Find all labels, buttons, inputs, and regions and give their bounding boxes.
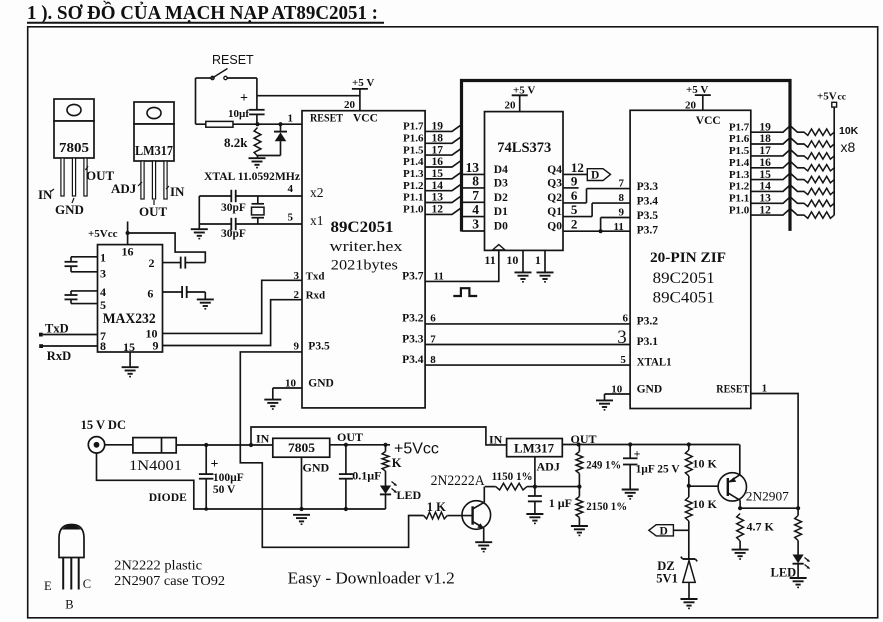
svg-text:74LS373: 74LS373 [497, 140, 551, 156]
chip MAX232 box [98, 245, 163, 352]
capacitor MAX232 C2 [65, 295, 78, 299]
svg-text:5: 5 [571, 202, 578, 217]
svg-text:P1.2: P1.2 [729, 181, 750, 193]
MAX232 pin labels [100, 245, 159, 355]
svg-text:Q3: Q3 [547, 177, 562, 189]
resistor network 10K x8 [804, 129, 834, 218]
terminal RxD [39, 344, 71, 363]
wire master P3.3 to ZIF [425, 344, 630, 346]
terminal TxD [39, 321, 69, 336]
74LS373 D input wires [462, 160, 509, 233]
wire 2N2222A collector [483, 487, 485, 503]
svg-text:16: 16 [122, 245, 134, 259]
svg-text:1: 1 [288, 113, 294, 125]
wire 373 pin10 gnd [522, 250, 524, 272]
wire Q1 to ZIF P3.4 [563, 203, 630, 217]
svg-text:6: 6 [571, 188, 578, 203]
svg-text:2: 2 [571, 217, 578, 232]
regulator 7805 box [256, 432, 330, 457]
regulator LM317 box [489, 432, 562, 456]
svg-text:x2: x2 [310, 185, 324, 200]
wire 2N2907 base [689, 485, 728, 487]
svg-text:LM317: LM317 [135, 143, 173, 158]
svg-text:15 V DC: 15 V DC [81, 418, 126, 432]
svg-text:TxD: TxD [45, 321, 69, 335]
svg-text:7: 7 [472, 188, 479, 203]
wire ZIF GND [605, 394, 631, 400]
label 2N2222A [431, 473, 485, 489]
wire raw supply rail [251, 427, 507, 445]
power +5V 373 [505, 84, 536, 111]
svg-text:30pF: 30pF [221, 228, 246, 240]
svg-text:D4: D4 [494, 164, 508, 176]
signal pointer D (program) [649, 525, 689, 538]
transistor 2N2222A [447, 501, 490, 542]
resistor 8.2k [224, 128, 261, 157]
svg-text:P3.4: P3.4 [637, 196, 659, 208]
ground 373 pin1 [537, 272, 554, 281]
chip 74LS373 box [485, 112, 564, 251]
svg-text:+5V: +5V [817, 91, 837, 103]
wire master P3.7 to 373 LE [425, 251, 499, 282]
svg-text:writer.hex: writer.hex [330, 239, 404, 255]
svg-text:IN: IN [256, 432, 270, 446]
89C2051 P1 bus wires with pin numbers [403, 121, 462, 216]
svg-text:89C2051: 89C2051 [331, 219, 394, 236]
svg-text:cc: cc [838, 93, 846, 103]
svg-text:D2: D2 [494, 192, 508, 204]
svg-text:P3.3: P3.3 [637, 181, 659, 193]
svg-text:1150 1%: 1150 1% [492, 469, 533, 483]
svg-text:P3.5: P3.5 [637, 210, 659, 222]
svg-text:ADJ: ADJ [537, 459, 560, 473]
LED indicator right [771, 555, 810, 580]
svg-text:IN: IN [489, 432, 503, 446]
wire x2 line [199, 195, 302, 197]
capacitor 1uF 25V [623, 445, 680, 490]
svg-text:2N2222A: 2N2222A [431, 473, 485, 489]
latch enable caret 373 [493, 245, 506, 250]
note Easy-Downloader [288, 569, 455, 588]
resistor K [382, 445, 402, 471]
svg-text:1: 1 [100, 251, 106, 265]
wire MAX232 pin9 to Rxd [163, 300, 303, 346]
svg-text:8: 8 [472, 173, 479, 188]
svg-text:D3: D3 [494, 177, 508, 189]
svg-text:+5Vcc: +5Vcc [394, 441, 439, 458]
ground xtal [191, 229, 208, 238]
signal pointer D (373) [587, 169, 610, 182]
wire diode to ground [258, 156, 281, 158]
wire connector return [97, 453, 386, 511]
svg-text:Q1: Q1 [547, 206, 562, 218]
LED indicator left [380, 471, 422, 509]
resistor reset series (box) [206, 121, 233, 127]
ground ZIF GND [596, 400, 613, 409]
capacitor 30pF lower [221, 218, 246, 240]
DC input connector [88, 437, 104, 453]
svg-text:6: 6 [623, 313, 629, 325]
svg-text:5V1: 5V1 [656, 571, 678, 585]
svg-text:P3.5: P3.5 [308, 341, 330, 353]
svg-text:VCC: VCC [696, 115, 721, 127]
svg-text:P1.1: P1.1 [403, 192, 423, 204]
resistor 2150 1% [576, 487, 627, 526]
74LS373 bottom pin numbers [484, 253, 541, 267]
svg-text:MAX232: MAX232 [103, 311, 156, 327]
svg-text:Easy - Downloader v1.2: Easy - Downloader v1.2 [288, 569, 455, 588]
svg-text:P1.3: P1.3 [729, 169, 750, 181]
svg-text:GND: GND [637, 383, 663, 395]
label RESET [212, 53, 254, 67]
svg-text:K: K [392, 456, 402, 470]
svg-text:P1.4: P1.4 [403, 156, 424, 168]
svg-text:10 K: 10 K [693, 457, 718, 471]
svg-text:11: 11 [614, 221, 624, 233]
crystal 11.0592MHz symbol [252, 196, 265, 224]
wire Q3 stub [563, 187, 579, 189]
wire +5V feed to reset circuit [257, 95, 360, 97]
resistor LED series [795, 508, 802, 554]
svg-text:6: 6 [430, 313, 436, 325]
ZIF P1 wires with pin numbers [729, 121, 805, 216]
svg-text:P3.3: P3.3 [402, 333, 424, 345]
wire ZIF RESET to transistor [751, 394, 798, 509]
svg-text:3: 3 [472, 217, 479, 232]
wire reset cap to pin1 line [256, 114, 258, 124]
svg-text:P1.7: P1.7 [729, 121, 750, 133]
wire Q0 to ZIF P3.7 and P3.5 [563, 218, 630, 234]
svg-text:5: 5 [288, 212, 294, 224]
label +5Vcc [394, 441, 439, 458]
wire 7805 OUT rail [330, 430, 390, 447]
svg-text:9: 9 [153, 339, 159, 353]
power +5Vcc MAX232 [88, 222, 130, 245]
svg-text:8: 8 [100, 339, 106, 353]
svg-text:7805: 7805 [59, 141, 89, 156]
svg-text:P1.1: P1.1 [729, 193, 749, 205]
svg-text:C: C [83, 577, 91, 591]
svg-text:10 K: 10 K [693, 497, 718, 511]
svg-text:P3.2: P3.2 [402, 313, 424, 325]
svg-text:P1.0: P1.0 [403, 204, 424, 216]
svg-text:3: 3 [100, 267, 106, 281]
svg-text:8: 8 [619, 192, 625, 204]
ground 373 pin10 [515, 272, 532, 281]
svg-text:10µf: 10µf [228, 108, 249, 120]
svg-text:8: 8 [430, 354, 436, 366]
capacitor 10uf reset [228, 91, 265, 120]
resistor 249 1% [576, 445, 621, 487]
svg-text:x1: x1 [310, 213, 324, 228]
wire TxD to pin7 [43, 334, 98, 336]
capacitor MAX232 C1 [65, 262, 78, 266]
svg-text:LM317: LM317 [514, 441, 554, 455]
svg-text:9: 9 [571, 173, 578, 188]
resistor 1K [424, 500, 448, 519]
svg-text:P3.2: P3.2 [637, 315, 659, 327]
ZIF top labels [650, 115, 726, 307]
74LS373 Q output labels [547, 160, 584, 233]
regulator LM317 TO-220 package drawing [111, 102, 185, 219]
svg-text:8.2k: 8.2k [224, 135, 248, 150]
svg-text:2N2907 case TO92: 2N2907 case TO92 [114, 573, 225, 588]
svg-text:Q2: Q2 [547, 192, 562, 204]
svg-text:50 V: 50 V [213, 484, 236, 496]
svg-text:P1.7: P1.7 [403, 121, 424, 133]
wire MAX232 pins1-3 loop [71, 257, 98, 272]
wire ADJ node line [485, 485, 582, 489]
svg-text:1 µF: 1 µF [549, 496, 572, 510]
svg-text:E: E [44, 579, 52, 593]
ground 2N2222A emitter [475, 542, 492, 551]
wire x1 line [199, 223, 302, 225]
svg-text:2N2222 plastic: 2N2222 plastic [114, 558, 202, 573]
svg-text:0.1µF: 0.1µF [352, 469, 381, 483]
svg-text:RxD: RxD [47, 349, 71, 363]
svg-text:11: 11 [484, 253, 495, 267]
svg-text:LED: LED [397, 488, 422, 502]
svg-text:Q4: Q4 [547, 164, 562, 176]
svg-text:P1.2: P1.2 [403, 180, 424, 192]
svg-text:P3.7: P3.7 [402, 270, 424, 282]
regulator 7805 TO-220 package drawing [38, 99, 115, 217]
svg-text:GND: GND [308, 377, 334, 389]
transistor TO-92 package drawing [44, 525, 91, 612]
capacitor MAX232 pin6 [182, 286, 187, 298]
svg-text:10K: 10K [839, 125, 859, 137]
ground MAX232 pin6 [197, 299, 214, 308]
diode 1N4001 [129, 438, 182, 474]
power +5V master [344, 77, 374, 111]
svg-text:7805: 7805 [288, 441, 315, 455]
wire reset loop left [195, 78, 197, 124]
wire 7805 gnd [302, 457, 330, 509]
capacitor 0.1uF [339, 445, 382, 509]
svg-text:GND: GND [55, 202, 84, 217]
svg-text:2N2907: 2N2907 [746, 490, 789, 504]
svg-text:4.7 K: 4.7 K [747, 520, 775, 534]
pullup common rail +5Vcc [817, 91, 846, 216]
svg-text:P3.1: P3.1 [637, 336, 659, 348]
label 10K x8 [839, 125, 859, 155]
label DIODE [149, 490, 187, 504]
chip 89C2051 box [302, 111, 425, 408]
svg-text:XTAL 11.0592MHz: XTAL 11.0592MHz [204, 169, 301, 183]
svg-text:9: 9 [294, 340, 300, 352]
svg-text:Rxd: Rxd [306, 290, 326, 302]
svg-text:D1: D1 [494, 206, 508, 218]
wire MAX232 pins4-5 loop [71, 291, 98, 304]
power +5V ZIF [685, 84, 711, 112]
svg-text:5: 5 [620, 354, 626, 366]
svg-text:D: D [660, 526, 668, 538]
svg-text:100µF: 100µF [213, 472, 244, 484]
capacitor 30pF upper [221, 190, 246, 214]
wire MAX232 pin10 to Txd [163, 280, 303, 333]
bus thick line [462, 81, 791, 232]
wire V+ loop to +5Vcc [128, 233, 206, 263]
svg-text:x8: x8 [841, 139, 856, 155]
ground 2150 [571, 526, 588, 535]
89C2051 pin labels [285, 113, 444, 390]
svg-text:2: 2 [294, 289, 300, 301]
svg-text:7: 7 [430, 333, 436, 345]
svg-text:+: + [634, 447, 641, 461]
note 2N2222 plastic [114, 558, 202, 573]
svg-text:Q0: Q0 [547, 221, 562, 233]
svg-text:3: 3 [617, 327, 627, 348]
wire RxD to pin8 [43, 345, 98, 347]
svg-text:10: 10 [506, 253, 518, 267]
wire Q2 to ZIF P3.3 [563, 189, 630, 203]
ground MAX232 pin15 [122, 367, 139, 376]
svg-text:P1.0: P1.0 [729, 204, 750, 216]
wire Q4 to D pointer [563, 173, 587, 175]
wire 373 pin1 gnd [544, 250, 546, 272]
transistor 2N2907 [718, 473, 746, 509]
wire connector to diode [105, 444, 133, 446]
svg-text:89C2051: 89C2051 [653, 270, 715, 287]
ground master GND [264, 400, 281, 409]
resistor 10K lower [685, 486, 717, 559]
svg-text:4: 4 [288, 183, 294, 195]
svg-text:9: 9 [619, 206, 625, 218]
svg-text:20: 20 [505, 100, 517, 112]
svg-text:P3.7: P3.7 [637, 224, 659, 236]
svg-text:6: 6 [147, 287, 153, 301]
svg-text:IN: IN [38, 187, 53, 202]
svg-text:P1.3: P1.3 [403, 168, 424, 180]
svg-text:1: 1 [535, 253, 541, 267]
wire master GND pin10 [273, 388, 302, 399]
svg-text:RESET: RESET [716, 383, 749, 395]
svg-text:2: 2 [149, 256, 155, 270]
wire master P3.5 to bottom [240, 352, 423, 547]
ground 4.7K [732, 550, 749, 559]
svg-text:249 1%: 249 1% [586, 458, 621, 472]
svg-text:+: + [240, 91, 248, 106]
resistor 1150 1% [492, 469, 533, 490]
svg-text:GND: GND [303, 461, 330, 475]
wire xtal left vertical [198, 196, 200, 229]
svg-text:VCC: VCC [353, 113, 378, 125]
svg-text:P1.6: P1.6 [729, 133, 750, 145]
wire diode to 7805 IN [176, 443, 273, 447]
zener diode DZ 5V1 [656, 557, 697, 599]
note 2N2907 case TO92 [114, 573, 225, 588]
wire MAX232 pin15 to ground [129, 352, 131, 367]
svg-text:P1.6: P1.6 [403, 133, 424, 145]
svg-text:Txd: Txd [306, 270, 325, 282]
wire collector node [738, 506, 800, 510]
svg-text:OUT: OUT [139, 204, 168, 219]
wire master P3.4 to ZIF [425, 364, 630, 366]
svg-text:B: B [65, 597, 73, 611]
svg-text:RESET: RESET [212, 53, 254, 67]
svg-text:2150 1%: 2150 1% [586, 499, 627, 513]
svg-text:89C4051: 89C4051 [653, 290, 715, 307]
wire master P3.2 to ZIF [425, 323, 630, 325]
ground zener [681, 599, 698, 608]
svg-text:IN: IN [170, 184, 185, 199]
ground 1uF 25V [622, 490, 639, 499]
capacitor 100uF 50V [199, 445, 244, 509]
svg-text:P1.4: P1.4 [729, 157, 750, 169]
svg-text:30pF: 30pF [221, 202, 246, 214]
svg-text:1µF 25 V: 1µF 25 V [636, 461, 680, 475]
chip 20-PIN ZIF box [630, 110, 751, 408]
svg-text:P1.5: P1.5 [729, 145, 750, 157]
ground reset [249, 158, 266, 167]
svg-text:+5Vcc: +5Vcc [88, 228, 118, 240]
svg-text:4: 4 [100, 285, 106, 299]
capacitor 1uF ADJ [528, 487, 572, 514]
svg-text:XTAL1: XTAL1 [637, 357, 672, 369]
svg-text:20-PIN ZIF: 20-PIN ZIF [650, 250, 726, 266]
resistor 4.7K [737, 514, 775, 550]
wire MAX232 pin2 [163, 262, 206, 264]
label XTAL 11.0592MHz [204, 169, 301, 183]
svg-text:OUT: OUT [337, 430, 363, 444]
svg-text:20: 20 [344, 99, 356, 111]
ground LED right [790, 578, 807, 587]
svg-text:7: 7 [619, 178, 625, 190]
svg-text:D: D [591, 170, 599, 182]
svg-text:P1.5: P1.5 [403, 144, 424, 156]
svg-text:RESET: RESET [310, 113, 343, 125]
svg-text:P3.4: P3.4 [402, 354, 424, 366]
wire LM317 OUT rail [562, 432, 739, 447]
svg-text:1 ). SƠ ĐỒ CỦA MẠCH NẠP AT89C: 1 ). SƠ ĐỒ CỦA MẠCH NẠP AT89C2051 : [27, 0, 378, 24]
74LS373 name [497, 140, 551, 156]
ZIF left pin labels [611, 178, 767, 396]
svg-text:+: + [211, 457, 219, 472]
svg-text:+5 V: +5 V [352, 77, 374, 89]
wire reset pin1 line [196, 122, 303, 126]
label 15 V DC [81, 418, 126, 432]
svg-text:1 K: 1 K [427, 500, 446, 514]
svg-text:4: 4 [472, 202, 479, 217]
ground 7805 [293, 515, 310, 524]
ground 1uF ADJ [526, 514, 543, 523]
svg-text:D0: D0 [494, 221, 508, 233]
svg-text:5: 5 [100, 298, 106, 312]
svg-text:2021bytes: 2021bytes [331, 257, 398, 273]
svg-text:ADJ: ADJ [111, 181, 137, 196]
diode reset clamp [274, 124, 287, 155]
pulse waveform symbol [453, 288, 477, 296]
wire MAX232 pin6 [163, 292, 206, 299]
label 2N2907 [746, 490, 789, 504]
wire 2N2907 emitter riser [739, 445, 741, 475]
svg-text:1N4001: 1N4001 [129, 458, 182, 474]
svg-text:DIODE: DIODE [149, 490, 187, 504]
resistor 10K upper [685, 445, 717, 488]
svg-text:3: 3 [294, 270, 300, 282]
wire reset loop right upper [256, 78, 258, 110]
reset push switch [196, 69, 257, 80]
capacitor MAX232 pin2 [181, 257, 186, 269]
page title [27, 0, 384, 24]
wire LM317 ADJ [533, 457, 560, 489]
svg-text:15: 15 [123, 340, 135, 354]
